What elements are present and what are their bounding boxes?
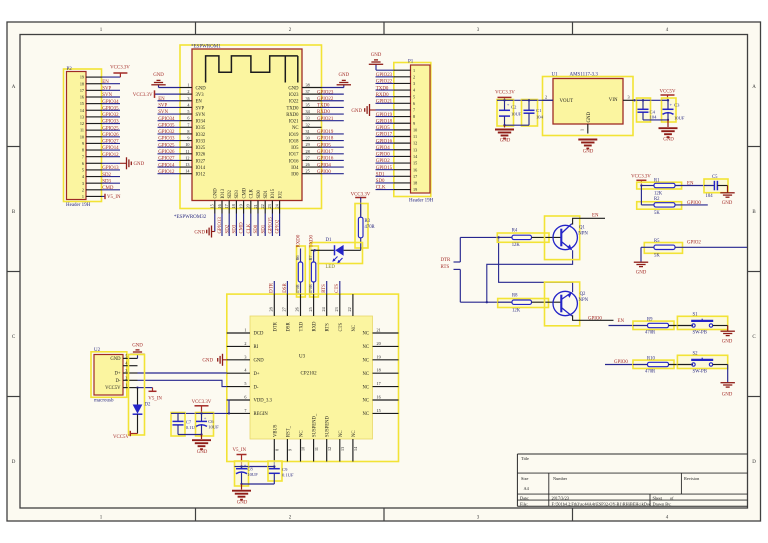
svg-text:CMD: CMD [242, 187, 247, 198]
svg-text:SD0: SD0 [257, 190, 262, 199]
resistor R5 5K [641, 239, 683, 258]
regulator U1 pin 1 GND stub [580, 124, 588, 134]
ground symbol at R5 [634, 247, 648, 275]
module U1 right pin 37 IO23 [289, 89, 344, 98]
resistor R8 12K [498, 294, 549, 314]
IC U3 designator [299, 355, 306, 360]
switch S1 SW-PB [677, 313, 727, 336]
header P1 pin 6 [376, 100, 416, 106]
svg-text:DTR: DTR [441, 258, 452, 263]
header P1 pin 15 [376, 159, 418, 165]
vertical net label CTS at U3 [335, 281, 340, 294]
svg-text:8: 8 [275, 449, 280, 451]
header P1 pin 10 [376, 126, 418, 132]
IC U3 top pin 24 RTS [321, 294, 331, 331]
svg-text:IO17: IO17 [289, 153, 299, 158]
svg-text:1: 1 [244, 328, 246, 333]
svg-text:V5_IN: V5_IN [148, 396, 162, 401]
svg-text:GPIO18: GPIO18 [317, 137, 334, 142]
svg-text:17: 17 [413, 174, 417, 179]
svg-text:GND: GND [194, 230, 205, 235]
svg-text:of: of [670, 495, 674, 500]
svg-text:GPIO35: GPIO35 [158, 123, 175, 128]
header P2 pin 17 [80, 87, 120, 93]
header P1 pin 13 [376, 146, 418, 152]
svg-text:GPIO18: GPIO18 [376, 119, 393, 124]
net label GPIO0 at S2 [605, 360, 648, 365]
IC U3 right pin 18 NC [362, 368, 398, 377]
header P2 pin 18 [80, 80, 120, 86]
header P1 pin 5 [376, 93, 416, 99]
svg-text:EN: EN [592, 214, 599, 219]
svg-text:macrousb: macrousb [94, 398, 114, 403]
module U1 left pin 3 EN [158, 96, 203, 105]
wire C7 C6 ground rail [178, 433, 203, 435]
svg-text:GPIO34: GPIO34 [102, 100, 119, 105]
svg-text:2: 2 [413, 74, 415, 79]
svg-text:C7: C7 [186, 419, 192, 424]
svg-text:R9: R9 [647, 317, 653, 322]
IC U3 left pin 1 DCD [227, 328, 264, 337]
svg-text:Header 19H: Header 19H [66, 203, 91, 208]
svg-text:U1: U1 [552, 73, 559, 78]
module U1 right pin 38 GND [288, 83, 321, 92]
svg-text:R4: R4 [512, 229, 518, 234]
IC U3 right pin 16 NC [362, 395, 398, 404]
module U1 bottom pin 17 SD2 [224, 190, 233, 236]
svg-text:6: 6 [244, 395, 246, 400]
svg-text:19: 19 [238, 204, 243, 208]
svg-text:S2: S2 [693, 352, 699, 357]
vertical net label DTR at U3 [270, 281, 275, 294]
ground symbol below C8 [232, 484, 251, 506]
svg-text:3: 3 [627, 95, 629, 100]
svg-text:C5: C5 [712, 175, 718, 180]
LED D1 [311, 243, 363, 264]
capacitor C6 10UF [196, 412, 220, 436]
svg-text:VCC3.3V: VCC3.3V [110, 65, 130, 70]
svg-text:CMD: CMD [240, 222, 245, 234]
svg-text:GPIO0: GPIO0 [376, 153, 390, 158]
svg-text:CLK: CLK [247, 223, 252, 233]
net label GPIO0 at R2 [687, 201, 701, 206]
svg-text:1: 1 [413, 68, 415, 73]
power port VCC5V below D2 [113, 431, 138, 440]
module U1 left pin 9 IO33 [158, 136, 206, 145]
svg-text:+: + [204, 415, 207, 420]
svg-text:R3: R3 [365, 219, 371, 224]
IC U3 left pin 3 GND [227, 354, 264, 363]
svg-text:7: 7 [413, 108, 415, 113]
module U1 right pin 25 IO0 [291, 169, 344, 178]
svg-text:NC: NC [362, 385, 369, 390]
wire R5 to GPIO2 [675, 246, 747, 248]
ground symbol at P2 pin 6 [102, 157, 145, 169]
svg-text:2: 2 [244, 341, 246, 346]
svg-text:20: 20 [377, 341, 381, 346]
header P2 pin 19 [80, 75, 102, 80]
USB U2 comment macrousb [94, 398, 114, 403]
svg-text:3: 3 [82, 181, 84, 186]
svg-text:IO18: IO18 [289, 139, 299, 144]
svg-text:16: 16 [217, 204, 222, 208]
svg-text:22: 22 [347, 307, 352, 311]
svg-text:6: 6 [82, 161, 84, 166]
title block [517, 454, 747, 506]
ground symbol at S1 [721, 326, 735, 345]
svg-text:GND: GND [153, 73, 164, 78]
svg-text:VCC3.3V: VCC3.3V [495, 90, 515, 95]
module U1 right pin 35 TXD0 [287, 102, 344, 111]
IC U3 top pin 26 TXD [295, 294, 305, 331]
svg-text:18: 18 [377, 368, 381, 373]
svg-text:GPIO33: GPIO33 [102, 120, 119, 125]
svg-text:D-: D- [254, 385, 259, 390]
svg-text:27: 27 [282, 307, 287, 311]
power port VCC3.3V at C7 C6 [192, 400, 212, 413]
power port VCC3.3V at R1 [631, 175, 651, 186]
svg-text:R5: R5 [654, 239, 660, 244]
svg-text:9: 9 [413, 121, 415, 126]
svg-text:18: 18 [231, 204, 236, 208]
module U1 right pin 30 IO18 [289, 136, 344, 145]
module U1 left pin 11 IO26 [158, 149, 206, 158]
svg-text:104: 104 [650, 115, 658, 120]
ground symbol at U1 pin 38 [322, 73, 352, 87]
svg-text:NPN: NPN [578, 232, 588, 237]
header P2 pin 11 [80, 126, 120, 132]
vertical net label DSR at U3 [283, 281, 288, 294]
header P2 pin 16 [80, 93, 120, 99]
module U1 left pin 4 SVP [158, 102, 205, 111]
svg-text:SD3: SD3 [102, 179, 111, 184]
svg-text:GND: GND [132, 343, 143, 348]
svg-text:GPIO16: GPIO16 [317, 157, 334, 162]
module U1 bottom pin 24 IO2 [274, 191, 283, 236]
svg-text:GPIO22: GPIO22 [376, 80, 393, 85]
svg-text:D-: D- [116, 379, 121, 384]
svg-text:36: 36 [306, 96, 310, 101]
svg-text:SD2: SD2 [225, 224, 230, 233]
ground symbol at U1 pin 1 [151, 73, 180, 87]
svg-text:GPIO34: GPIO34 [158, 117, 175, 122]
svg-text:SVP: SVP [196, 106, 205, 111]
wire VIN rail [633, 99, 669, 101]
net label GPIO2 at R5 [687, 241, 701, 246]
power port VCC3.3V at P2 pin 19 [102, 65, 131, 77]
svg-text:21: 21 [377, 328, 381, 333]
wire Q1 collector to EN [572, 218, 605, 224]
resistor R7 470R on RXD [308, 234, 320, 297]
svg-text:2017/3/23: 2017/3/23 [552, 495, 569, 500]
svg-text:GPIO17: GPIO17 [376, 133, 393, 138]
svg-text:28: 28 [306, 149, 310, 154]
svg-text:R6: R6 [295, 255, 300, 261]
module U1 bottom pin 23 IO15 [267, 188, 276, 236]
svg-text:13: 13 [413, 147, 417, 152]
svg-text:11: 11 [413, 134, 417, 139]
IC U3 bottom pin 9 RST_ [286, 425, 292, 461]
svg-text:NC: NC [352, 430, 357, 437]
svg-text:30: 30 [306, 136, 310, 141]
net label DTR [441, 258, 461, 263]
svg-text:18: 18 [80, 81, 84, 86]
svg-text:104: 104 [706, 194, 714, 199]
svg-text:5: 5 [413, 94, 415, 99]
wire R4 to Q1 base [532, 236, 562, 238]
svg-text:GPIO21: GPIO21 [317, 117, 334, 122]
svg-text:SD3: SD3 [235, 190, 240, 199]
svg-text:8: 8 [413, 114, 415, 119]
capacitor C1 104 [522, 99, 544, 126]
svg-text:IO0: IO0 [291, 173, 299, 178]
svg-text:DSR: DSR [286, 322, 291, 332]
wire Q2 collector to GPIO0 [572, 316, 614, 321]
capacitor C2 10UF [497, 99, 522, 126]
header P1 body [394, 63, 431, 197]
svg-text:A: A [12, 85, 16, 90]
IC U3 right pin 19 NC [362, 354, 398, 363]
svg-text:2: 2 [82, 187, 84, 192]
header P2 designator [67, 67, 73, 72]
power port V5_IN at U2 [148, 388, 162, 402]
svg-text:C6: C6 [208, 419, 214, 424]
svg-text:33: 33 [306, 116, 310, 121]
module U1 bottom pin 16 IO13 [217, 188, 226, 236]
wire VIN cap ground rail [643, 119, 669, 121]
svg-text:19: 19 [377, 354, 381, 359]
svg-text:GND: GND [338, 73, 349, 78]
diode D2 [129, 355, 145, 436]
header P2 body [64, 69, 102, 202]
svg-text:470R: 470R [295, 284, 300, 293]
svg-text:GPIO13: GPIO13 [102, 166, 119, 171]
svg-text:IO27: IO27 [196, 159, 206, 164]
regulator U1 designator and value [552, 73, 599, 78]
svg-text:R10: R10 [647, 356, 655, 361]
ground symbol at C5 [720, 186, 734, 206]
IC U3 bottom pin 14 NC [352, 430, 358, 461]
svg-text:10UF: 10UF [247, 472, 258, 477]
svg-text:VCC3.3V: VCC3.3V [192, 400, 212, 405]
module U1 right pin 32 NC [292, 122, 322, 131]
svg-text:NC: NC [362, 399, 369, 404]
USB U2 pin 5 GND [110, 353, 137, 362]
IC U3 left pin 5 D- [227, 381, 259, 390]
svg-text:17: 17 [377, 381, 381, 386]
svg-text:RTS: RTS [322, 284, 327, 293]
module U1 bottom pin 19 CMD [238, 187, 247, 236]
module U1 left pin 14 IO12 [158, 169, 206, 178]
transistor Q1 NPN [545, 216, 580, 260]
svg-text:DSR: DSR [283, 283, 288, 293]
svg-text:VCC5V: VCC5V [105, 386, 121, 391]
IC U3 top pin 22 NC [347, 294, 357, 331]
svg-text:27: 27 [306, 155, 310, 160]
svg-text:IO19: IO19 [289, 133, 299, 138]
svg-text:NC: NC [300, 430, 305, 437]
svg-text:IO34: IO34 [196, 120, 206, 125]
svg-text:25: 25 [308, 307, 313, 311]
wire R9 to S1 [669, 325, 694, 327]
net label EN at Q1 [592, 214, 599, 219]
svg-text:CMD: CMD [102, 186, 114, 191]
svg-text:37: 37 [306, 89, 310, 94]
svg-text:EN: EN [102, 80, 109, 85]
USB U2 designator [94, 348, 101, 353]
svg-text:Header 19H: Header 19H [409, 199, 434, 204]
svg-text:P1: P1 [408, 60, 414, 65]
wire Q1 emitter to RTS [487, 250, 573, 302]
svg-text:17: 17 [224, 204, 229, 208]
IC U3 bottom pin 10 NC [300, 430, 306, 461]
svg-text:7: 7 [244, 408, 246, 413]
svg-text:GPIO25: GPIO25 [158, 143, 175, 148]
svg-text:GPIO32: GPIO32 [158, 130, 175, 135]
svg-text:13: 13 [80, 114, 84, 119]
svg-text:0.1UF: 0.1UF [282, 473, 294, 478]
svg-text:SW-PB: SW-PB [693, 370, 707, 375]
svg-text:GND: GND [110, 357, 121, 362]
svg-text:IO16: IO16 [289, 159, 299, 164]
svg-text:GPIO14: GPIO14 [158, 163, 175, 168]
IC U3 left pin 7 REGIN [227, 408, 269, 417]
svg-text:TXD0: TXD0 [376, 86, 389, 91]
svg-text:10UF: 10UF [511, 111, 522, 116]
svg-text:SD0: SD0 [376, 179, 385, 184]
svg-text:GPIO21: GPIO21 [376, 100, 393, 105]
svg-text:GPIO12: GPIO12 [158, 170, 175, 175]
header P1 pin 3 [376, 80, 416, 86]
svg-text:GND: GND [663, 137, 674, 142]
svg-text:GND: GND [583, 150, 594, 155]
regulator U1 pin names [560, 98, 618, 123]
designator D1 [326, 238, 332, 243]
wire R1 to EN and C5 [675, 185, 713, 187]
svg-text:GPIO23: GPIO23 [376, 73, 393, 78]
IC U3 bottom pin 12 SUSPEND [326, 416, 332, 462]
wire DTR to Q2 emitter [499, 237, 573, 292]
svg-text:RXD0: RXD0 [297, 234, 302, 247]
IC U3 left pin 2 RI [227, 341, 259, 350]
svg-text:RI: RI [254, 345, 259, 350]
svg-text:GPIO0: GPIO0 [614, 360, 628, 365]
svg-text:+: + [670, 102, 673, 107]
header P2 pin 4 [82, 173, 120, 179]
svg-text:21: 21 [253, 204, 258, 208]
svg-text:A4: A4 [524, 486, 530, 491]
svg-text:V5_IN: V5_IN [107, 195, 121, 200]
svg-text:C2: C2 [511, 104, 517, 109]
ground symbol at U1 pin 15 [194, 214, 214, 238]
svg-text:16: 16 [80, 95, 84, 100]
svg-text:5: 5 [82, 168, 84, 173]
svg-text:CTS: CTS [335, 284, 340, 293]
header P1 pin 11 [376, 133, 418, 139]
svg-text:Date:: Date: [520, 495, 529, 500]
svg-text:IO26: IO26 [196, 153, 206, 158]
header P2 pin 3 [82, 179, 120, 185]
capacitor C5 104 [704, 175, 728, 199]
svg-text:SD2: SD2 [228, 190, 233, 199]
module U1 bottom pin 22 SD1 [260, 190, 269, 236]
svg-text:GND: GND [254, 359, 265, 364]
svg-text:12K: 12K [654, 192, 663, 197]
svg-text:12: 12 [185, 155, 189, 160]
svg-text:C1: C1 [536, 108, 542, 113]
svg-text:3: 3 [244, 354, 246, 359]
svg-text:EN: EN [687, 182, 694, 187]
capacitor C4 104 [637, 98, 658, 122]
svg-text:DCD: DCD [254, 332, 265, 337]
svg-text:2: 2 [187, 89, 189, 94]
svg-text:+: + [507, 102, 510, 107]
svg-text:10: 10 [80, 134, 84, 139]
svg-text:NC: NC [362, 372, 369, 377]
svg-text:VIN: VIN [609, 98, 618, 103]
header P1 pin 2 [376, 73, 416, 79]
svg-text:CTS: CTS [339, 323, 344, 332]
resistor R3 470R [355, 204, 376, 251]
module U1 right pin 28 IO17 [289, 149, 344, 158]
svg-text:470R: 470R [645, 331, 656, 336]
module U1 left pin 5 SVN [158, 109, 206, 118]
wire USB D+ to U3 [138, 372, 227, 374]
net label EN at S1 [609, 319, 648, 326]
svg-text:15: 15 [413, 161, 417, 166]
svg-text:19: 19 [413, 187, 417, 192]
svg-text:GPIO2: GPIO2 [687, 241, 701, 246]
svg-text:C3: C3 [674, 102, 680, 107]
power port VCC5V at regulator input [659, 90, 676, 101]
svg-text:15: 15 [377, 408, 381, 413]
svg-text:SD0: SD0 [254, 224, 259, 233]
wire R2 to GPIO0 [675, 204, 708, 206]
module U1 right pin 33 IO21 [289, 116, 344, 125]
svg-text:TXD0: TXD0 [287, 106, 300, 111]
svg-text:NPN: NPN [579, 298, 589, 303]
svg-text:SVN: SVN [196, 113, 206, 118]
svg-text:VCC3.3V: VCC3.3V [631, 175, 651, 180]
IC U3 bottom pin 11 SUSPEND_ [313, 413, 319, 461]
IC U3 top pin 28 DTR [269, 294, 279, 331]
svg-text:Number: Number [553, 476, 568, 481]
wire RTS riser [460, 269, 512, 303]
header P2 pin 14 [80, 106, 120, 112]
USB U2 pin 3 D+ [114, 368, 137, 377]
svg-text:GPIO27: GPIO27 [158, 157, 175, 162]
svg-text:GND: GND [202, 359, 213, 364]
svg-text:GND: GND [587, 111, 592, 122]
svg-text:12K: 12K [512, 243, 521, 248]
header P1 pin 7 [394, 108, 415, 113]
header P1 pin 14 [376, 153, 419, 159]
net label EN [687, 182, 694, 187]
svg-text:DTR: DTR [270, 282, 275, 293]
svg-text:NC: NC [339, 430, 344, 437]
IC U3 bottom pin 13 NC [339, 430, 345, 461]
svg-text:VDD_3.3: VDD_3.3 [254, 399, 273, 404]
wire VOUT rail [503, 99, 553, 101]
module U1 left pin 8 IO32 [158, 129, 206, 138]
svg-text:GPIO0: GPIO0 [317, 170, 331, 175]
designator Q1 NPN [578, 226, 588, 237]
module U1 right pin 29 IO5 [291, 142, 344, 151]
power port VCC3.3V at R3 [351, 192, 371, 217]
svg-text:7: 7 [187, 122, 189, 127]
header P1 pin 12 [376, 139, 418, 145]
svg-text:9: 9 [288, 449, 293, 451]
